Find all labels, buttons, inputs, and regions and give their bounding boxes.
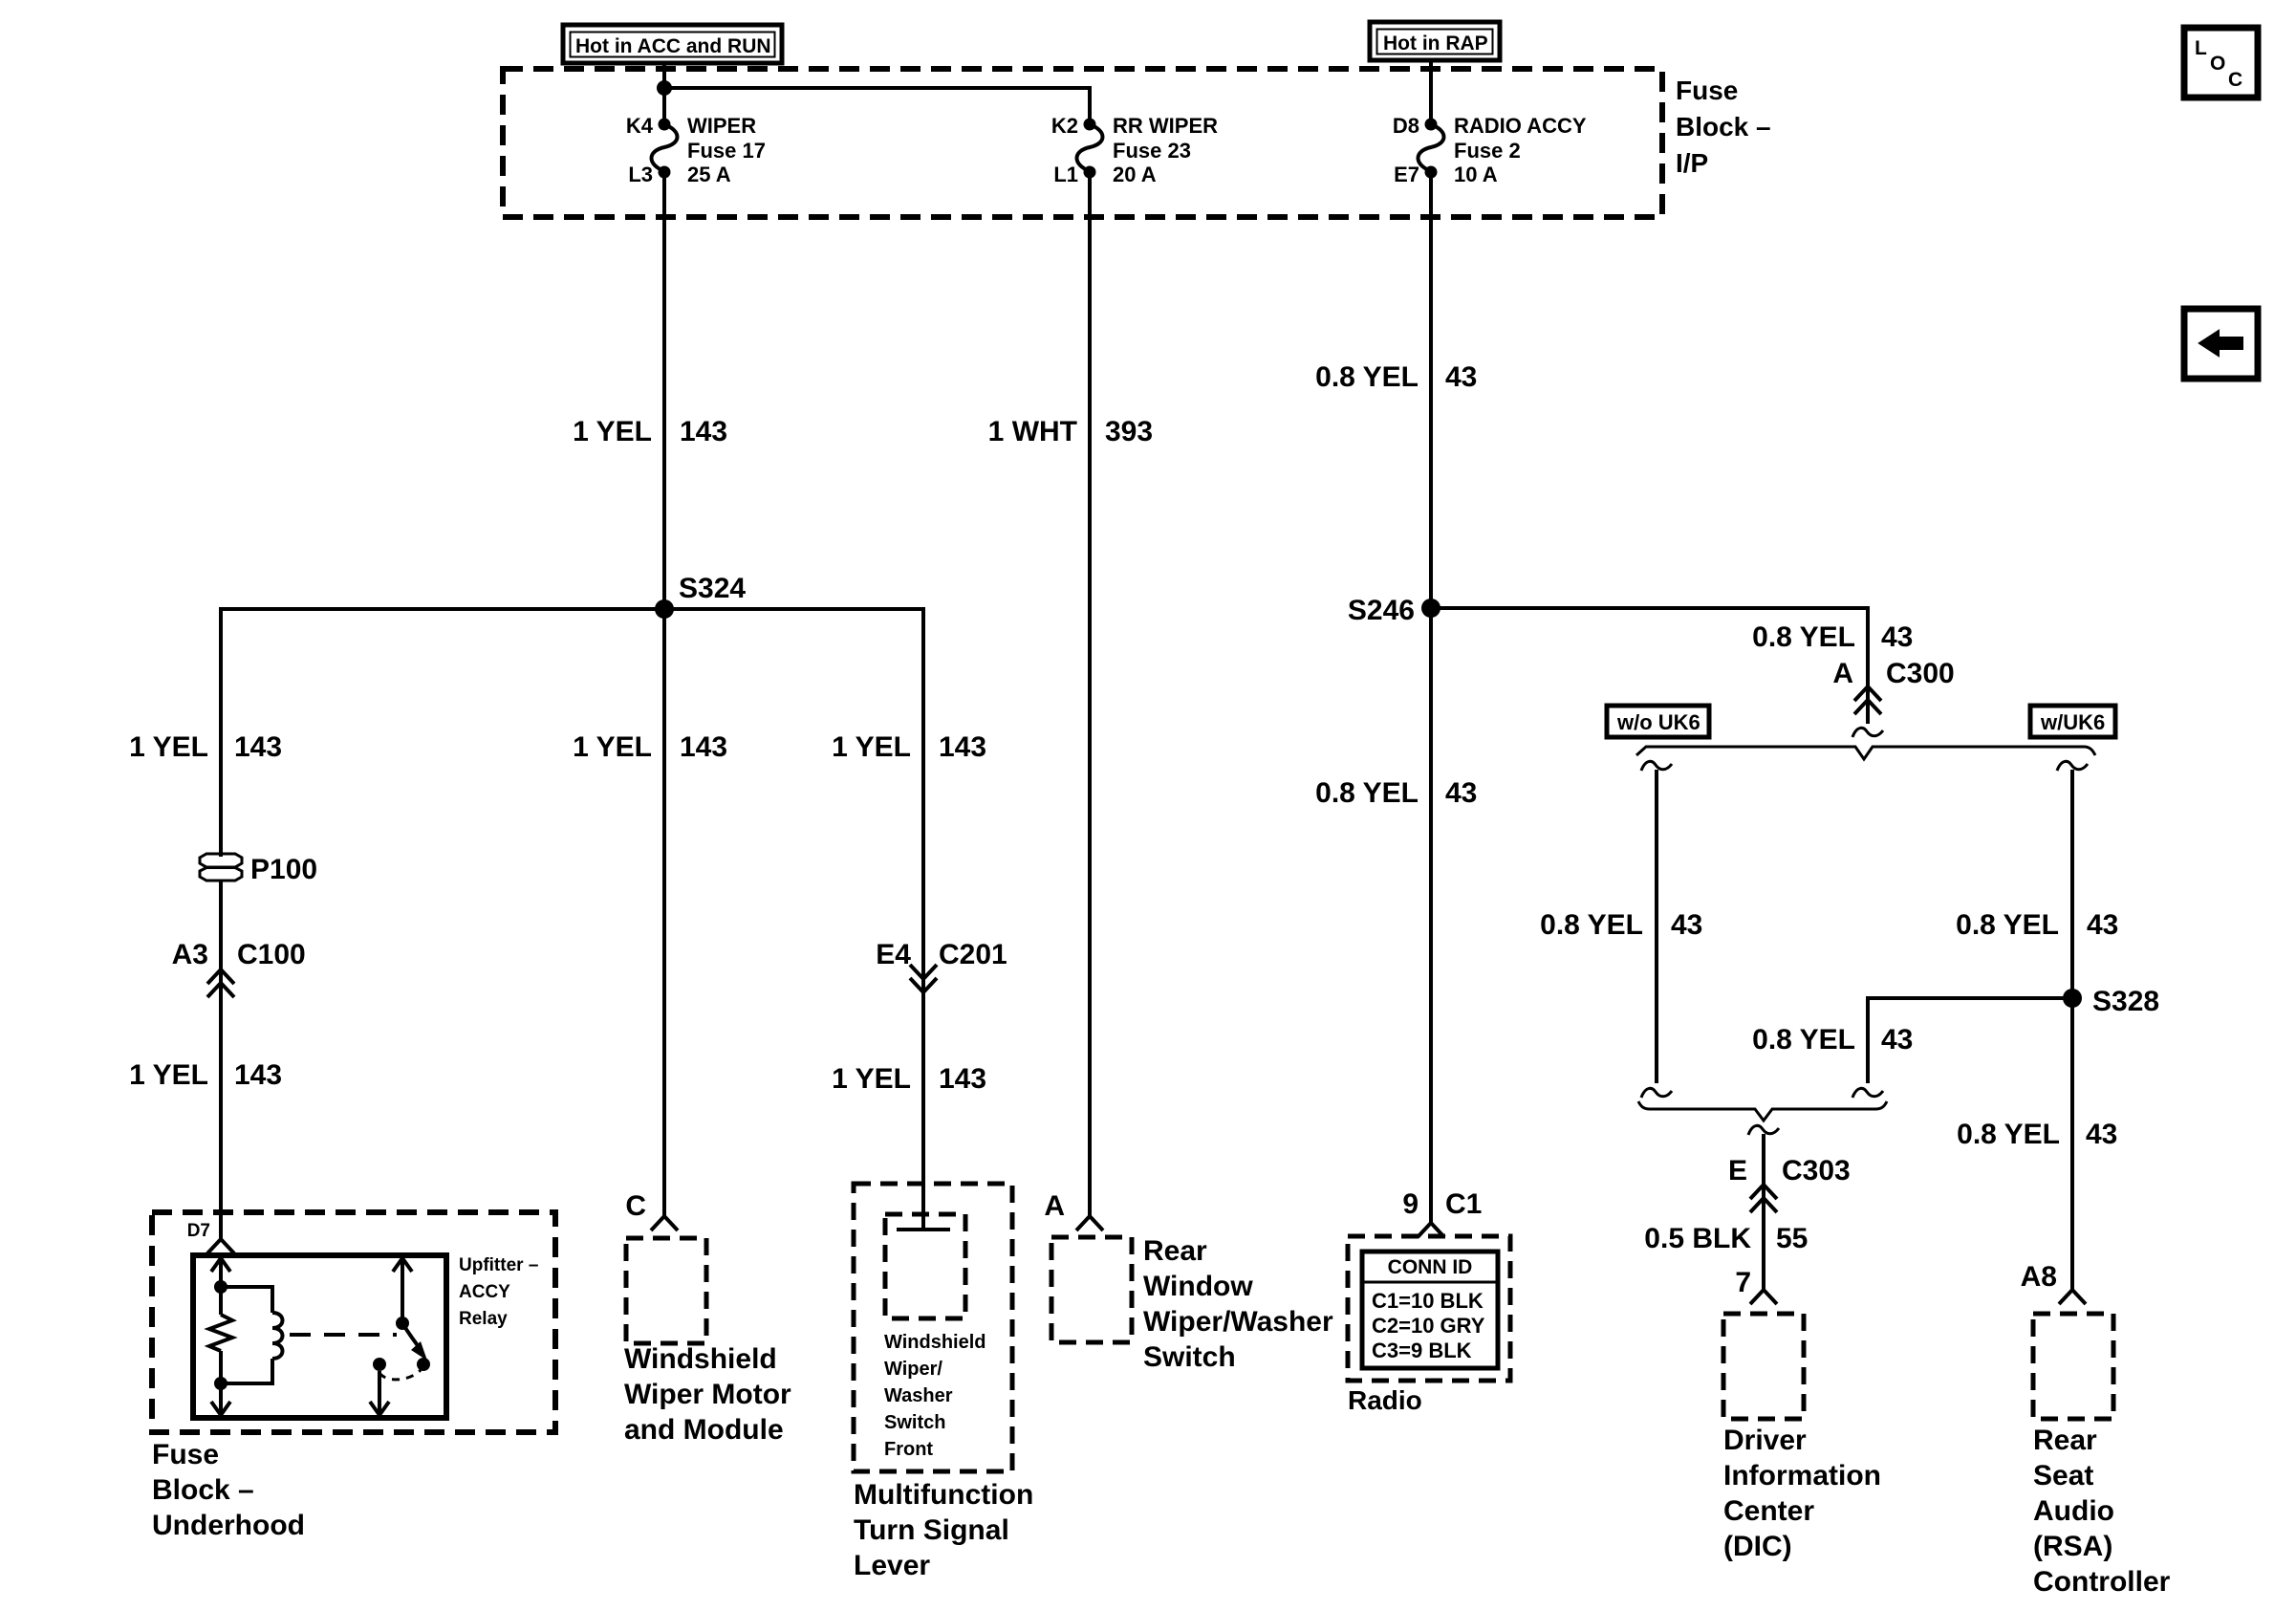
svg-text:43: 43 (1881, 621, 1913, 653)
svg-text:w/o UK6: w/o UK6 (1616, 710, 1700, 734)
svg-text:C201: C201 (939, 939, 1007, 970)
option tag box w/UK6 (2030, 706, 2115, 737)
wiper/washer switch inner dashed box (885, 1214, 965, 1318)
svg-text:143: 143 (680, 416, 727, 447)
svg-text:S324: S324 (679, 573, 746, 604)
label Upfitter - ACCY Relay (459, 1255, 538, 1329)
svg-text:Fuse 2: Fuse 2 (1454, 139, 1521, 163)
svg-text:Windshield: Windshield (884, 1332, 986, 1353)
svg-text:(DIC): (DIC) (1723, 1531, 1792, 1562)
connector C100 pin A3 (in-line, double chevron) (172, 939, 306, 997)
svg-text:9: 9 (1402, 1188, 1419, 1220)
svg-text:Driver: Driver (1723, 1425, 1807, 1456)
svg-text:C303: C303 (1782, 1155, 1851, 1186)
svg-text:Hot in RAP: Hot in RAP (1383, 33, 1488, 54)
connector C303 pin E (in-line, double chevron) (1728, 1155, 1851, 1212)
svg-text:K2: K2 (1051, 114, 1078, 138)
svg-text:K4: K4 (626, 114, 654, 138)
svg-text:(RSA): (RSA) (2033, 1531, 2112, 1562)
svg-text:55: 55 (1776, 1223, 1808, 1254)
relay switch pivot (396, 1317, 409, 1330)
svg-text:Window: Window (1143, 1271, 1253, 1302)
svg-text:Seat: Seat (2033, 1460, 2093, 1491)
relay wire resistor to bottom arrow (219, 1351, 223, 1415)
splice S324 (655, 599, 674, 619)
svg-text:RR WIPER: RR WIPER (1113, 114, 1218, 138)
svg-text:Relay: Relay (459, 1309, 508, 1329)
label Fuse Block - Underhood (152, 1439, 305, 1541)
svg-text:Underhood: Underhood (152, 1510, 305, 1541)
wire stub below C300 with option squiggle (1852, 728, 1883, 737)
svg-text:143: 143 (939, 731, 986, 763)
wire: S328 branch left and down (0.8 YEL 43) (1868, 998, 2072, 1083)
svg-text:Fuse: Fuse (152, 1439, 219, 1470)
wire: w/UK6 option leg top (0.8 YEL 43) (2057, 761, 2088, 771)
connector C300 pin A (in-line, double chevron) (1832, 658, 1954, 714)
connector pin A8 (RSA) (2021, 1261, 2086, 1304)
label Driver Information Center (DIC) (1723, 1425, 1881, 1562)
relay output wire (bottom arrow) (378, 1371, 381, 1415)
svg-text:C: C (625, 1190, 646, 1222)
wire: S324 left branch to left column (221, 609, 664, 857)
svg-text:25 A: 25 A (687, 163, 731, 186)
svg-text:Wiper Motor: Wiper Motor (624, 1379, 791, 1410)
connector pin D7 (187, 1221, 234, 1253)
svg-text:D7: D7 (187, 1221, 210, 1241)
label Windshield Wiper/Washer Switch Front (884, 1332, 986, 1460)
svg-text:Fuse: Fuse (1676, 76, 1738, 105)
svg-text:A8: A8 (2021, 1261, 2057, 1293)
label Rear Seat Audio (RSA) Controller (2033, 1425, 2171, 1598)
junction: ACC feed split (657, 80, 672, 96)
connector pin 7 (DIC) (1735, 1267, 1777, 1304)
label Multifunction Turn Signal Lever (854, 1479, 1033, 1581)
wire: S324 right branch to C201 (664, 609, 923, 977)
option tag box w/o UK6 (1607, 706, 1709, 737)
multifunction lever outer dashed box (854, 1184, 1012, 1471)
splice S328 (2063, 989, 2082, 1008)
svg-text:393: 393 (1105, 416, 1153, 447)
splice S246 (1421, 599, 1440, 618)
svg-text:Fuse 23: Fuse 23 (1113, 139, 1191, 163)
svg-text:S328: S328 (2092, 986, 2159, 1017)
rear window wiper/washer switch dashed box (1051, 1237, 1132, 1342)
svg-text:1 YEL: 1 YEL (832, 731, 911, 763)
wire: S246 right branch to C300 (0.8 YEL 43) (1431, 608, 1868, 724)
svg-text:43: 43 (1445, 361, 1477, 393)
svg-text:Windshield: Windshield (624, 1343, 777, 1375)
relay switch dashed throw arc (379, 1370, 421, 1380)
wire: merged to C303 with squiggle (1748, 1125, 1779, 1135)
fuse block underhood dashed box (152, 1212, 555, 1432)
svg-text:L1: L1 (1053, 163, 1078, 186)
svg-text:0.8 YEL: 0.8 YEL (1956, 909, 2059, 941)
label Fuse Block - I/P (1676, 76, 1771, 178)
svg-text:E: E (1728, 1155, 1747, 1186)
wire: S324 down branch to wiper motor C (662, 609, 666, 1216)
svg-text:1 YEL: 1 YEL (129, 731, 208, 763)
svg-text:and Module: and Module (624, 1414, 784, 1446)
power label box "Hot in RAP" (1370, 22, 1500, 60)
svg-text:A: A (1044, 1190, 1065, 1222)
svg-text:Audio: Audio (2033, 1495, 2114, 1527)
svg-text:1 YEL: 1 YEL (129, 1059, 208, 1091)
svg-text:10 A: 10 A (1454, 163, 1498, 186)
svg-text:C1: C1 (1445, 1188, 1482, 1220)
RSA controller dashed box (2033, 1314, 2113, 1419)
relay actuation dashed line (290, 1333, 397, 1337)
svg-text:Wiper/: Wiper/ (884, 1359, 942, 1380)
label Rear Window Wiper/Washer Switch (1143, 1235, 1333, 1373)
svg-text:143: 143 (680, 731, 727, 763)
svg-text:Turn Signal: Turn Signal (854, 1514, 1009, 1546)
svg-text:S246: S246 (1348, 595, 1415, 626)
svg-text:Upfitter –: Upfitter – (459, 1255, 538, 1275)
fuse block I/P dashed box (503, 69, 1662, 217)
fuse: RR WIPER Fuse 23 20 A (pins K2/L1) (1051, 114, 1218, 186)
svg-text:143: 143 (939, 1063, 986, 1095)
power label box "Hot in ACC and RUN" (563, 25, 782, 63)
svg-text:7: 7 (1735, 1267, 1751, 1298)
svg-text:0.5 BLK: 0.5 BLK (1644, 1223, 1751, 1254)
svg-text:1 YEL: 1 YEL (573, 731, 652, 763)
svg-text:C1=10 BLK: C1=10 BLK (1372, 1289, 1484, 1313)
svg-text:Switch: Switch (884, 1412, 945, 1433)
svg-text:0.8 YEL: 0.8 YEL (1315, 777, 1419, 809)
svg-text:L: L (2195, 37, 2207, 59)
svg-text:Rear: Rear (1143, 1235, 1207, 1267)
wire: P100 to C100 (219, 881, 223, 1239)
relay switch moving contact (417, 1358, 430, 1371)
svg-text:Block –: Block – (152, 1474, 254, 1506)
svg-text:143: 143 (234, 731, 282, 763)
relay resistor (209, 1315, 232, 1351)
grommet P100 (200, 854, 317, 885)
relay junction bottom (214, 1377, 227, 1390)
svg-text:0.8 YEL: 0.8 YEL (1540, 909, 1643, 941)
svg-text:C3=9 BLK: C3=9 BLK (1372, 1339, 1472, 1362)
option merge brace (bottom) (1638, 1101, 1887, 1121)
svg-text:Information: Information (1723, 1460, 1881, 1491)
wire: Hot in ACC and RUN feed (662, 63, 666, 124)
label Windshield Wiper Motor and Module (624, 1343, 791, 1446)
svg-text:1 WHT: 1 WHT (988, 416, 1077, 447)
relay junction top (214, 1280, 227, 1294)
svg-text:Rear: Rear (2033, 1425, 2097, 1456)
svg-text:Block –: Block – (1676, 112, 1771, 142)
svg-text:A3: A3 (172, 939, 208, 970)
svg-text:C2=10 GRY: C2=10 GRY (1372, 1314, 1485, 1338)
relay switch fixed contact (373, 1358, 386, 1371)
svg-text:C300: C300 (1886, 658, 1955, 689)
svg-text:A: A (1832, 658, 1853, 689)
relay switch common pin (top arrow) (393, 1258, 412, 1323)
svg-text:w/UK6: w/UK6 (2040, 710, 2105, 734)
svg-text:P100: P100 (250, 854, 317, 885)
svg-text:143: 143 (234, 1059, 282, 1091)
svg-text:43: 43 (2086, 1119, 2117, 1150)
wire: S246 down to radio (0.8 YEL 43) (1429, 608, 1433, 1223)
wire: Hot in RAP feed (1429, 60, 1433, 124)
wire: w/o UK6 option leg (0.8 YEL 43) (1641, 761, 1672, 771)
svg-text:Lever: Lever (854, 1550, 930, 1581)
relay box: Upfitter ACCY Relay (193, 1255, 446, 1418)
wire: L3 to S324 (1 YEL 143) (662, 172, 666, 609)
svg-text:Switch: Switch (1143, 1341, 1236, 1373)
svg-text:C100: C100 (237, 939, 306, 970)
relay coil pin (top-left arrow) (211, 1258, 230, 1315)
svg-text:0.8 YEL: 0.8 YEL (1315, 361, 1419, 393)
wire: C201 to wiper/washer switch (1 YEL 143) (921, 977, 925, 1230)
svg-text:Controller: Controller (2033, 1566, 2171, 1598)
svg-text:RADIO ACCY: RADIO ACCY (1454, 114, 1587, 138)
switch terminal T-bar (897, 1228, 950, 1231)
svg-text:Fuse 17: Fuse 17 (687, 139, 766, 163)
svg-text:1 YEL: 1 YEL (573, 416, 652, 447)
LOC reference box (2184, 28, 2258, 98)
svg-text:Center: Center (1723, 1495, 1814, 1527)
svg-text:Radio: Radio (1348, 1385, 1422, 1415)
svg-text:Washer: Washer (884, 1385, 953, 1406)
svg-text:ACCY: ACCY (459, 1282, 510, 1302)
svg-text:0.8 YEL: 0.8 YEL (1957, 1119, 2060, 1150)
radio dashed box (1348, 1236, 1510, 1381)
connector C201 pin E4 (in-line, double chevron down) (876, 939, 1007, 992)
svg-text:I/P: I/P (1676, 148, 1708, 178)
connector pin A (rear window switch) (1044, 1190, 1103, 1230)
svg-text:D8: D8 (1393, 114, 1419, 138)
DIC dashed box (1723, 1314, 1804, 1419)
svg-text:0.8 YEL: 0.8 YEL (1752, 621, 1855, 653)
svg-text:20 A: 20 A (1113, 163, 1157, 186)
windshield wiper motor dashed box (626, 1238, 706, 1343)
svg-text:43: 43 (1881, 1024, 1913, 1056)
svg-text:O: O (2210, 53, 2225, 75)
relay switch blade with arrowhead (402, 1323, 419, 1347)
back navigation arrow box (2184, 309, 2258, 379)
svg-text:L3: L3 (628, 163, 653, 186)
svg-text:CONN ID: CONN ID (1388, 1256, 1473, 1278)
radio CONN ID table (1362, 1252, 1498, 1368)
wire: E7 to S246 (0.8 YEL 43) (1429, 172, 1433, 608)
svg-text:43: 43 (2087, 909, 2118, 941)
wire: L1 to rear window switch (1 WHT 393) (1088, 172, 1092, 1216)
connector pin 9 C1 (radio) (1402, 1188, 1482, 1237)
svg-text:E7: E7 (1394, 163, 1419, 186)
svg-text:E4: E4 (876, 939, 911, 970)
svg-text:Multifunction: Multifunction (854, 1479, 1033, 1511)
svg-text:Hot in ACC and RUN: Hot in ACC and RUN (575, 35, 771, 57)
fuse: RADIO ACCY Fuse 2 10 A (pins D8/E7) (1393, 114, 1587, 186)
svg-text:0.8 YEL: 0.8 YEL (1752, 1024, 1855, 1056)
option gather brace (top) (1636, 747, 2095, 759)
svg-text:Wiper/Washer: Wiper/Washer (1143, 1306, 1333, 1338)
connector pin C (wiper motor) (625, 1190, 678, 1230)
svg-text:43: 43 (1445, 777, 1477, 809)
svg-text:43: 43 (1671, 909, 1702, 941)
svg-text:Front: Front (884, 1439, 933, 1460)
relay coil branch with coil (221, 1287, 272, 1313)
svg-text:WIPER: WIPER (687, 114, 756, 138)
fuse: WIPER Fuse 17 25 A (pins K4/L3) (626, 114, 766, 186)
svg-text:C: C (2228, 69, 2242, 91)
svg-text:1 YEL: 1 YEL (832, 1063, 911, 1095)
